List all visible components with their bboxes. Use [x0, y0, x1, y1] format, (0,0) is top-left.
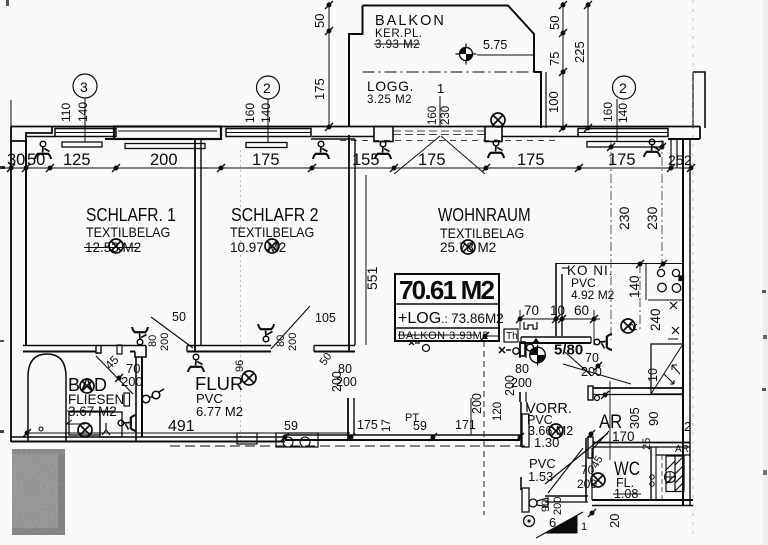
neighbour balcony slab top right: [693, 72, 705, 128]
svg-text:70.61 M2: 70.61 M2: [399, 275, 495, 305]
svg-text:50: 50: [547, 16, 562, 30]
window 175 (wohnraum): x578-668: [578, 129, 668, 137]
right wall: [682, 139, 684, 505]
svg-text:90: 90: [540, 500, 552, 512]
svg-text:240: 240: [648, 308, 663, 331]
svg-text:3.25 M2: 3.25 M2: [367, 94, 412, 106]
ar/wc wall: [593, 442, 690, 444]
svg-text:70: 70: [585, 351, 599, 365]
circle 2 (axis right): [613, 76, 636, 99]
svg-text:2: 2: [619, 80, 627, 96]
circle 2 (axis left): [257, 76, 280, 99]
svg-text:110: 110: [59, 103, 73, 122]
svg-text:175: 175: [517, 151, 545, 169]
svg-text:175: 175: [252, 151, 280, 169]
svg-text:200: 200: [159, 333, 171, 351]
svg-text:80: 80: [515, 362, 529, 376]
svg-text:155: 155: [352, 151, 380, 169]
svg-text:120: 120: [492, 402, 504, 421]
svg-text:10: 10: [550, 303, 565, 318]
right corner: [699, 127, 701, 140]
stair hatch shaft: [650, 455, 690, 492]
svg-text:175: 175: [418, 151, 446, 169]
svg-text:WOHNRAUM: WOHNRAUM: [438, 205, 531, 226]
circle 3: [73, 74, 97, 98]
svg-text:5/80: 5/80: [554, 342, 583, 359]
entrance threshold: [545, 496, 588, 502]
svg-text:160: 160: [243, 103, 257, 123]
svg-text:50: 50: [312, 14, 327, 28]
symbols near vorr top: [499, 347, 511, 353]
svg-text:200: 200: [150, 151, 178, 169]
left edge artifacts: [0, 166, 5, 169]
loggia lamp outlet: [491, 113, 505, 127]
svg-text:TEXTILBELAG: TEXTILBELAG: [86, 225, 170, 241]
AR walls: [588, 381, 690, 460]
svg-text:491: 491: [168, 418, 195, 435]
Th box: [504, 329, 518, 342]
svg-text:551: 551: [364, 266, 380, 290]
sill under window 125: [62, 142, 102, 147]
balcony left edge: [349, 6, 363, 128]
faint vertical scan line right: [692, 0, 694, 540]
washbasin box: [69, 412, 100, 435]
wall bedrooms/flur segA (BAD top): [23, 345, 146, 347]
balcony outline: [363, 6, 535, 73]
svg-text:80: 80: [147, 335, 159, 347]
kitchen door swing: [565, 352, 592, 376]
sill under 175: [246, 143, 287, 148]
counter below: [651, 344, 683, 394]
svg-text:50: 50: [318, 351, 335, 368]
flur lamp symbols: [132, 327, 148, 345]
svg-text:200: 200: [330, 371, 344, 392]
loggia right wall: [534, 72, 541, 128]
room bad: [67, 375, 124, 419]
svg-text:175: 175: [312, 78, 327, 100]
bathtub: [28, 354, 66, 441]
svg-text:25: 25: [668, 152, 684, 168]
svg-text:70: 70: [524, 303, 539, 318]
balcony door zone x374-502: [374, 127, 393, 142]
svg-text:TEXTILBELAG: TEXTILBELAG: [440, 226, 524, 242]
left wall: [10, 141, 12, 442]
svg-text:R: R: [628, 323, 640, 331]
quadrant circle symbol: [530, 345, 546, 366]
partition schlafr1/2: [194, 139, 196, 352]
kitchen fixtures right: [646, 264, 684, 394]
room flur: [195, 360, 256, 419]
svg-text:140: 140: [627, 275, 642, 298]
door top-view symbol: [524, 322, 537, 329]
BALKON label: [367, 13, 446, 106]
sill under 200: [125, 144, 205, 149]
70 10 60 dim chain: [520, 318, 600, 320]
svg-text:1: 1: [581, 521, 587, 533]
svg-text:4.92 M2: 4.92 M2: [571, 288, 615, 302]
south parapet wohnraum: [285, 439, 520, 441]
svg-text:125: 125: [63, 151, 91, 169]
svg-text:200: 200: [287, 333, 299, 351]
svg-text:LOGG.: LOGG.: [367, 78, 414, 94]
svg-text:230: 230: [644, 206, 660, 230]
svg-text:305: 305: [627, 407, 642, 429]
svg-text:10: 10: [646, 368, 660, 382]
window 175 (schlafr2): x229-311: [226, 129, 311, 137]
left corner step: [11, 127, 52, 142]
svg-text:BALKON 3.93M2: BALKON 3.93M2: [398, 330, 489, 342]
svg-text:2: 2: [684, 419, 691, 434]
svg-text:5.75: 5.75: [483, 38, 507, 52]
big window rect 200: x114-221: [114, 127, 221, 140]
partition lower stub (wohnraum/flur): [347, 398, 349, 440]
diagonal leader to AR: [563, 364, 631, 384]
svg-text:175: 175: [357, 418, 378, 432]
svg-text:30: 30: [7, 151, 25, 169]
svg-text:105: 105: [315, 311, 336, 325]
bottom wall (BAD / south): [11, 441, 285, 443]
svg-text:230: 230: [440, 106, 452, 125]
dashed line below south wall: [170, 445, 525, 447]
kitchen top boundary: [556, 263, 683, 265]
outlet cluster left of Th box: [409, 340, 420, 345]
491 dim flur: [27, 432, 350, 434]
svg-text:140: 140: [616, 103, 630, 123]
svg-text:AR: AR: [675, 444, 689, 455]
svg-text:SCHLAFR. 1: SCHLAFR. 1: [86, 205, 176, 226]
scan crease line: [240, 150, 242, 443]
sill under wohnraum window: [587, 142, 663, 148]
551 vertical dim: [365, 175, 367, 345]
wall inner line segments (between windows): [26, 136, 55, 138]
wc box: [100, 412, 122, 437]
wc door swing: [548, 448, 583, 493]
svg-text:TEXTILBELAG: TEXTILBELAG: [230, 225, 314, 241]
svg-text:171: 171: [455, 418, 476, 432]
room wohnraum: [438, 205, 531, 255]
svg-text:6.77 M2: 6.77 M2: [196, 404, 243, 419]
wall outer line: [11, 126, 700, 128]
wc walls: [586, 438, 656, 502]
svg-text:200: 200: [470, 393, 484, 414]
svg-text:96: 96: [234, 360, 246, 372]
room schlafr1: [84, 205, 176, 255]
wall segC schlafr2 bottom: [314, 345, 355, 347]
svg-text:BALKON: BALKON: [375, 13, 446, 29]
small x marks kitchen margin: [670, 302, 677, 309]
entrance door swing: [545, 433, 608, 484]
svg-text:90: 90: [646, 412, 661, 426]
lock symbol: [529, 498, 548, 507]
svg-text:20: 20: [607, 514, 622, 528]
svg-text:175: 175: [608, 151, 636, 169]
svg-text:60: 60: [574, 303, 589, 318]
svg-text:170: 170: [612, 429, 635, 444]
survey point + 5.75: [456, 44, 477, 65]
svg-text:200: 200: [552, 497, 564, 515]
svg-text:45: 45: [102, 353, 122, 373]
dashed boundary kitchen/wohnraum: [610, 140, 612, 340]
svg-text:200: 200: [121, 374, 143, 389]
svg-text:1.53: 1.53: [528, 469, 553, 484]
kitchen left wall: [555, 263, 557, 336]
window 125: x55-116: [55, 129, 116, 137]
svg-text:3.93 M2: 3.93 M2: [375, 39, 420, 51]
svg-text:+LOG.: 73.86M2: +LOG.: 73.86M2: [398, 310, 504, 327]
wall segB schlafr1 bottom: [187, 345, 271, 347]
wall lamp right of kitchen door: [594, 334, 612, 350]
svg-text:6: 6: [549, 515, 556, 530]
svg-text:SCHLAFR 2: SCHLAFR 2: [231, 204, 319, 225]
outlet glasses wohnzimmer wall: [142, 389, 164, 403]
svg-text:1: 1: [437, 81, 444, 96]
door swing schlafr2: [271, 306, 310, 349]
svg-text:17: 17: [381, 419, 393, 432]
balcony/loggia dashed divider: [363, 71, 535, 73]
svg-text:225: 225: [572, 41, 587, 63]
svg-text:140: 140: [259, 103, 273, 123]
arrow in kitchen lower: [672, 365, 680, 374]
BAD right wall: [135, 357, 137, 441]
svg-text:2: 2: [263, 80, 271, 96]
svg-text:140: 140: [76, 102, 90, 122]
svg-text:Th: Th: [506, 331, 518, 342]
svg-text:50: 50: [172, 310, 186, 324]
lamp symbols under top wall: [35, 141, 51, 159]
svg-text:160: 160: [427, 106, 439, 125]
svg-text:100: 100: [546, 91, 561, 113]
north triangle: [546, 516, 577, 533]
bad door swing: [96, 356, 133, 394]
svg-text:59: 59: [413, 419, 427, 433]
wohnraum/vorr wall left: [519, 343, 521, 358]
scan sheet edge right: [763, 0, 768, 545]
svg-text:59: 59: [284, 419, 298, 433]
svg-text:2: 2: [684, 152, 692, 168]
partition schlafr2/wohnraum: [348, 135, 350, 352]
door swing schlafr1: [151, 317, 193, 348]
vorr left wall lower: [521, 402, 529, 512]
svg-text:3: 3: [80, 79, 88, 95]
svg-text:75: 75: [547, 52, 562, 66]
bottom right wall: [592, 499, 693, 501]
room schlafr2: [230, 204, 319, 255]
svg-text:160: 160: [601, 102, 615, 122]
svg-text:80: 80: [275, 335, 287, 347]
svg-text:200: 200: [511, 376, 532, 390]
circle dot symbol: [524, 516, 535, 527]
svg-text:1.30: 1.30: [534, 435, 559, 450]
arrow mark left of 200: [66, 420, 85, 424]
svg-text:230: 230: [616, 206, 632, 230]
